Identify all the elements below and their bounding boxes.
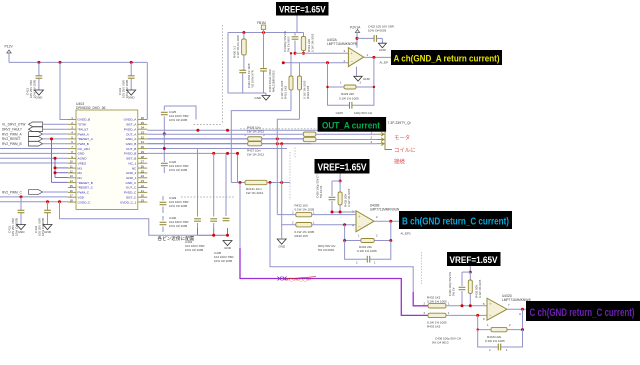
svg-text:GND: GND: [379, 48, 387, 52]
svg-text:0.1W 1% 1005: 0.1W 1% 1005: [485, 339, 505, 343]
node bfb2: [343, 239, 346, 242]
node bout: [389, 220, 392, 223]
wire rail left drop: [227, 33, 229, 94]
wire C425 top: [164, 106, 196, 120]
svg-text:5% C# 06: 5% C# 06: [319, 185, 323, 198]
wire caps to gnd: [228, 92, 266, 94]
svg-text:LMP7711MMKN0UN: LMP7711MMKN0UN: [370, 208, 400, 212]
svg-text:+: +: [489, 302, 492, 307]
svg-text:10% C# 1005: 10% C# 1005: [169, 168, 188, 172]
wire A in+: [295, 52, 348, 54]
svg-text:30: 30: [141, 145, 145, 149]
node rail-C433: [130, 61, 133, 64]
capacitor C433: [130, 62, 132, 75]
node ina: [282, 61, 285, 64]
svg-text:12: 12: [70, 169, 74, 173]
wire bus GND_A row: [147, 138, 247, 140]
wire GND_C sense magenta: [239, 183, 241, 249]
node s2: [276, 142, 279, 145]
svg-text:P2V1A: P2V1A: [350, 26, 361, 30]
wire left VDD: [0, 196, 68, 198]
svg-text:18: 18: [70, 198, 74, 202]
svg-text:R433 1K5: R433 1K5: [295, 234, 309, 238]
svg-text:GND: GND: [78, 152, 86, 156]
label VREF box 1: [276, 2, 329, 16]
svg-text:A ch(GND_A return current): A ch(GND_A return current): [394, 54, 500, 64]
node inb: [326, 61, 329, 64]
ground caps row: [223, 241, 232, 246]
label OUT_A box: [318, 117, 387, 132]
node vref2: [339, 180, 342, 183]
svg-text:PWM_C: PWM_C: [78, 191, 90, 195]
svg-text:VREF=1.65V: VREF=1.65V: [279, 4, 326, 15]
svg-text:*RESET_C: *RESET_C: [78, 186, 94, 190]
svg-text:GVDD_C: GVDD_C: [78, 200, 92, 204]
svg-text:23: 23: [141, 179, 145, 183]
svg-text:VL_DRV2_OTW: VL_DRV2_OTW: [2, 123, 25, 127]
svg-text:OC_ADJ: OC_ADJ: [78, 147, 91, 151]
svg-text:10% C# 1005: 10% C# 1005: [169, 118, 188, 122]
node caps: [212, 234, 215, 237]
ground opamp A: [354, 76, 362, 81]
capacitor C429: [162, 196, 164, 201]
svg-text:26: 26: [141, 164, 145, 168]
wire stageB feed2: [281, 144, 283, 225]
node RESET junction: [50, 137, 53, 140]
svg-text:*RESET_B: *RESET_B: [78, 181, 93, 185]
wire R421 tap: [231, 111, 291, 183]
svg-text:17: 17: [70, 194, 74, 198]
wire opamp gnd: [356, 67, 358, 77]
svg-text:13: 13: [70, 174, 74, 178]
svg-text:20: 20: [141, 194, 145, 198]
svg-text:5% C#: 5% C#: [452, 287, 456, 296]
svg-text:33: 33: [141, 130, 145, 134]
ground C432: [43, 225, 52, 230]
svg-text:14: 14: [70, 179, 74, 183]
svg-text:36: 36: [141, 116, 145, 120]
wire R2131 feed: [237, 153, 239, 182]
svg-text:GND: GND: [363, 77, 371, 81]
svg-text:−: −: [489, 313, 492, 318]
node C426: [163, 147, 166, 150]
capacitor C426: [163, 149, 165, 163]
svg-text:7-3P-339TY_QI: 7-3P-339TY_QI: [388, 121, 411, 125]
dashed boundary right: [240, 128, 317, 130]
svg-text:GND: GND: [18, 230, 26, 234]
dashed placement boundary top: [221, 25, 223, 124]
label B ch box: [399, 211, 512, 229]
node GVDD-C432: [46, 200, 49, 203]
svg-text:0.1W 1% 1005: 0.1W 1% 1005: [357, 249, 377, 253]
ground C423 C424: [262, 96, 270, 101]
svg-text:0.1W 1% 1005: 0.1W 1% 1005: [347, 188, 351, 207]
svg-text:AI_EP: AI_EP: [380, 60, 389, 64]
svg-text:5% C# 0613: 5% C# 0613: [432, 341, 449, 345]
svg-text:0.1W 1% 1005: 0.1W 1% 1005: [478, 279, 482, 298]
svg-text:1W 1% 2012: 1W 1% 2012: [246, 191, 264, 195]
svg-text:16: 16: [70, 189, 74, 193]
svg-text:AGND: AGND: [78, 157, 88, 161]
svg-text:OUT_C: OUT_C: [126, 186, 137, 190]
svg-text:0.1W 1% C# 1608: 0.1W 1% C# 1608: [236, 35, 240, 58]
wire GND under IC: [60, 202, 199, 236]
svg-text:10% C# 1005: 10% C# 1005: [214, 259, 233, 263]
svg-text:DRV2_FAULT: DRV2_FAULT: [2, 128, 22, 132]
node vin+ b: [302, 52, 305, 55]
svg-text:M2: M2: [78, 171, 83, 175]
svg-text:32: 32: [141, 135, 145, 139]
svg-text:21: 21: [141, 189, 145, 193]
capacitor C425: [163, 106, 165, 111]
label A ch box: [391, 50, 502, 65]
svg-text:19: 19: [141, 198, 145, 202]
capacitor C421: [38, 62, 40, 75]
svg-text:+: +: [358, 214, 361, 219]
dashed marker C: [421, 252, 423, 284]
ground C433: [127, 90, 136, 95]
svg-text:0.1W 1% 1005: 0.1W 1% 1005: [295, 208, 315, 212]
svg-text:10% C# 0603: 10% C# 0603: [368, 29, 387, 33]
node pwr: [356, 37, 359, 40]
node bus d: [226, 129, 229, 132]
node rail2: [262, 31, 265, 34]
ground C422: [378, 43, 386, 48]
svg-text:OUT_A: OUT_A: [126, 132, 137, 136]
svg-text:*RESET_A: *RESET_A: [78, 137, 94, 141]
wire caps bottom row: [198, 234, 227, 236]
svg-text:GND: GND: [224, 246, 232, 250]
svg-text:FB1M: FB1M: [257, 21, 266, 25]
svg-text:100p 50V CH: 100p 50V CH: [354, 111, 372, 115]
node rail-C421: [37, 61, 40, 64]
wire left GVDD_C: [0, 201, 68, 203]
svg-text:B ch(GND return_C current): B ch(GND return_C current): [402, 216, 509, 227]
node cout: [521, 308, 524, 311]
node c2: [469, 304, 472, 307]
svg-text:35: 35: [141, 121, 145, 125]
wire bus GND_B row: [147, 148, 287, 150]
svg-text:GND_C: GND_C: [125, 181, 137, 185]
svg-text:M1: M1: [78, 176, 83, 180]
wire R426 out: [316, 139, 377, 141]
label C ch box: [526, 301, 640, 321]
svg-text:RV2_RESET: RV2_RESET: [2, 137, 21, 141]
svg-text:22: 22: [141, 184, 145, 188]
node s3: [280, 142, 283, 145]
wire bus OUT_B row: [147, 152, 237, 154]
capacitor C430b: [332, 180, 340, 182]
svg-text:10: 10: [70, 160, 74, 164]
wire C out: [507, 308, 526, 310]
svg-text:GVDD_B: GVDD_B: [78, 118, 91, 122]
wire A in-: [283, 62, 348, 64]
node aout: [372, 56, 375, 59]
node vref3: [469, 271, 472, 274]
wire R425 out: [316, 133, 377, 135]
wire bus PVDD_A: [147, 129, 317, 131]
wire row OUT_A long: [147, 133, 303, 135]
capacitor C435: [225, 153, 227, 216]
node v2a: [331, 211, 334, 214]
svg-text:BST_A: BST_A: [126, 123, 137, 127]
svg-text:+: +: [350, 51, 353, 56]
resistor R436: [469, 272, 471, 280]
svg-text:BST_B: BST_B: [126, 157, 136, 161]
wire r431 out: [312, 214, 356, 216]
svg-text:コイルに: コイルに: [394, 147, 416, 154]
svg-text:VREF=1.65V: VREF=1.65V: [450, 255, 499, 266]
resistor R419: [303, 33, 305, 37]
wire M-pins vertical: [54, 158, 56, 177]
wire vref2 to +in: [332, 211, 356, 213]
svg-text:GND_B: GND_B: [126, 142, 137, 146]
svg-text:LMP7711MMKNOPB: LMP7711MMKNOPB: [327, 42, 357, 46]
svg-text:GVDD_C_1: GVDD_C_1: [120, 200, 137, 204]
wire left bus AGND: [0, 157, 68, 159]
svg-text:RV2_PWM_B: RV2_PWM_B: [2, 142, 22, 146]
label VREF box 2: [315, 159, 370, 174]
svg-text:5% C# 0603: 5% C# 0603: [318, 248, 334, 252]
svg-text:PWM_B: PWM_B: [78, 142, 89, 146]
resistor R433b: [296, 223, 312, 227]
wire vref rail: [228, 32, 304, 34]
wire sense out2: [262, 143, 311, 145]
resistor R433c: [428, 313, 446, 317]
svg-text:OUT_B: OUT_B: [126, 147, 136, 151]
svg-text:R421 1K5: R421 1K5: [284, 85, 288, 99]
svg-text:GND_A: GND_A: [126, 137, 138, 141]
svg-text:10% C# 1005: 10% C# 1005: [169, 204, 188, 208]
ground C421: [34, 90, 43, 95]
svg-text:*OTW: *OTW: [78, 123, 87, 127]
svg-text:VREG: VREG: [78, 161, 87, 165]
capacitor C424 electrolytic: [263, 33, 265, 69]
capacitor C423: [239, 69, 246, 71]
label VREF box 3: [447, 252, 501, 266]
svg-text:モータ: モータ: [394, 134, 410, 142]
ground mid right: [277, 239, 286, 244]
svg-text:PVDD_C: PVDD_C: [124, 191, 137, 195]
svg-text:0.1W 1% 1005: 0.1W 1% 1005: [311, 33, 315, 52]
wire R422 tap: [277, 119, 299, 139]
svg-text:GND: GND: [44, 230, 52, 234]
svg-text:GVDD_A: GVDD_A: [124, 118, 138, 122]
svg-text:0.1W 1% 1005: 0.1W 1% 1005: [339, 96, 359, 100]
svg-text:GND: GND: [278, 245, 286, 249]
dashed placement boundary mid: [181, 196, 235, 198]
node r2131b: [269, 181, 272, 184]
feedback cap loop C: [478, 330, 498, 347]
svg-text:C425: C425: [336, 111, 344, 115]
wire bus GND_A2 row: [147, 143, 247, 145]
capacitor C430: [162, 216, 164, 221]
svg-text:GND: GND: [254, 96, 262, 100]
wire P12V rail: [9, 61, 147, 63]
node v2b: [339, 211, 342, 214]
capacitor C434: [197, 149, 199, 217]
resistor R2131: [231, 182, 245, 184]
svg-text:VDD: VDD: [78, 195, 85, 199]
feedback loop B: [374, 221, 391, 240]
node r2131a: [239, 181, 242, 184]
node M3: [54, 157, 57, 160]
feedback loop A: [356, 57, 374, 87]
svg-text:GND_2: GND_2: [126, 171, 137, 175]
wire left bus OC_ADJ: [0, 148, 68, 150]
svg-text:24: 24: [141, 174, 145, 178]
feedback cap loop A: [328, 87, 350, 105]
resistor R427: [248, 142, 262, 146]
svg-text:1W 1% 2012: 1W 1% 2012: [247, 153, 265, 157]
svg-text:RV2_PWM_C: RV2_PWM_C: [2, 190, 22, 194]
svg-text:29: 29: [141, 150, 145, 154]
wire P12V vertical: [8, 53, 10, 62]
svg-text:10% C# 1005: 10% C# 1005: [185, 248, 204, 252]
node rail1: [242, 31, 245, 34]
wire vref2 drop: [339, 174, 341, 182]
node fb: [326, 86, 328, 88]
capacitor C432: [47, 202, 49, 210]
svg-text:34: 34: [141, 126, 145, 130]
ground C431: [17, 225, 26, 230]
wire RESET_B vertical: [51, 139, 53, 183]
wire vref3 drop: [469, 266, 471, 272]
svg-text:NC_1: NC_1: [128, 161, 136, 165]
resistor R426: [303, 137, 316, 141]
wire r433c out: [446, 314, 487, 316]
svg-text:NC: NC: [132, 166, 137, 170]
wire r432c out: [446, 305, 487, 307]
wire opamp power: [356, 32, 358, 48]
svg-text:GND: GND: [35, 96, 43, 100]
svg-text:R433 1K5: R433 1K5: [427, 325, 441, 329]
node C425: [163, 133, 166, 136]
node bfb: [343, 223, 346, 226]
svg-text:−: −: [350, 59, 353, 64]
wire left bus GND: [0, 152, 68, 154]
node bus b: [196, 129, 199, 132]
feedback cap loop B: [345, 241, 368, 260]
svg-text:M3: M3: [78, 166, 83, 170]
wire B out: [374, 220, 399, 222]
svg-text:MAL21B80S/1E3: MAL21B80S/1E3: [272, 70, 276, 92]
svg-text:PVDD_A: PVDD_A: [124, 127, 137, 131]
capacitor C431: [20, 197, 22, 210]
wire left bus VREG: [0, 162, 68, 164]
svg-text:GND: GND: [128, 96, 136, 100]
wire VREF1 drop: [296, 16, 298, 33]
wire r433b out: [312, 224, 356, 226]
dashed marker stageB: [289, 152, 291, 200]
capacitor C427 input: [294, 33, 296, 36]
wire stageB feed1: [276, 139, 278, 215]
svg-text:31: 31: [141, 140, 145, 144]
wire pwr to C422: [357, 37, 374, 39]
svg-text:GND_1: GND_1: [126, 176, 137, 180]
IC U403 pins: [68, 119, 76, 121]
svg-text:25: 25: [141, 169, 145, 173]
wire rail to pin1: [60, 62, 68, 119]
wire A out: [364, 56, 391, 58]
svg-text:*FAULT: *FAULT: [78, 127, 89, 131]
svg-text:BST_C: BST_C: [126, 195, 137, 199]
node bus a: [163, 133, 166, 136]
node bus c: [212, 152, 215, 155]
svg-text:28: 28: [141, 155, 145, 159]
svg-text:10% C# 1005: 10% C# 1005: [169, 224, 188, 228]
svg-text:PVDD_B: PVDD_B: [124, 152, 136, 156]
svg-text:11: 11: [70, 164, 73, 168]
svg-text:0.1W 1% 1005: 0.1W 1% 1005: [280, 80, 284, 99]
capacitor C433b: [213, 153, 215, 216]
node M1: [54, 171, 57, 174]
svg-text:P12V: P12V: [5, 45, 14, 49]
svg-text:C ch(GND return_C current): C ch(GND return_C current): [530, 307, 635, 319]
svg-text:A: A: [519, 312, 521, 316]
node rail-GVDDB: [59, 61, 62, 64]
svg-text:15: 15: [70, 184, 74, 188]
svg-text:5% C# 0603: 5% C# 0603: [287, 36, 291, 52]
connector body: [385, 132, 392, 150]
node vin+ a: [294, 52, 297, 55]
svg-text:0.1W 1% 1005: 0.1W 1% 1005: [427, 300, 447, 304]
node cfb: [476, 314, 479, 317]
svg-text:接続: 接続: [394, 158, 405, 166]
wire rail to pin36: [146, 62, 148, 119]
svg-text:1W 1% 2012: 1W 1% 2012: [247, 130, 265, 134]
node r2131c: [280, 181, 283, 184]
svg-text:RV2_PWM_A: RV2_PWM_A: [2, 132, 22, 136]
node VDD-C431: [20, 195, 23, 198]
wire C in1 lavender: [270, 183, 413, 293]
svg-text:PWM_A: PWM_A: [78, 132, 90, 136]
node c1: [461, 304, 464, 307]
svg-text:R422 1K5: R422 1K5: [306, 85, 310, 99]
svg-text:*63 100V X7R: *63 100V X7R: [251, 70, 255, 88]
svg-text:VREF=1.65V: VREF=1.65V: [318, 162, 367, 173]
node cfb2: [521, 328, 524, 331]
resistor R425: [303, 132, 316, 136]
node tap: [290, 52, 292, 54]
svg-text:27: 27: [141, 160, 145, 164]
resistor R435: [339, 181, 341, 192]
wire sense out1: [262, 138, 304, 140]
capacitor C437: [462, 271, 470, 273]
svg-text:AI_EP2: AI_EP2: [401, 231, 412, 235]
node s1: [276, 137, 279, 140]
feedback loop C: [507, 309, 523, 329]
svg-text:−: −: [358, 224, 361, 229]
node M2: [54, 166, 57, 169]
